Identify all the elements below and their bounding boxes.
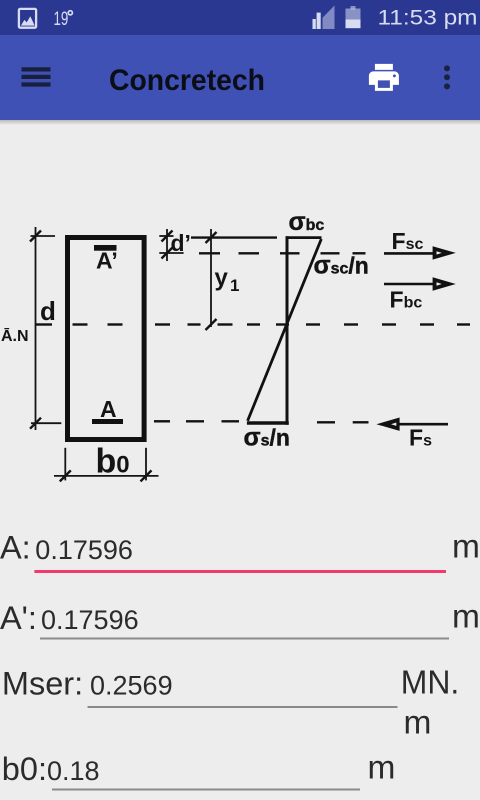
svg-text:Mser:: Mser: xyxy=(2,665,83,701)
rebar A' (top steel bar) xyxy=(94,245,117,251)
svg-text:A: A xyxy=(100,396,117,422)
svg-text:m: m xyxy=(404,705,432,742)
status icon: signal strength bars xyxy=(323,6,335,30)
app bar: overflow menu dots xyxy=(444,65,450,89)
beam cross-section rectangle xyxy=(68,238,145,440)
app bar: hamburger menu icon xyxy=(22,67,51,86)
svg-text:y: y xyxy=(215,265,229,292)
svg-text:1: 1 xyxy=(230,276,239,295)
dimension b0 (below beam) xyxy=(54,448,159,481)
svg-text:0.17596: 0.17596 xyxy=(35,535,133,565)
svg-text:0.18: 0.18 xyxy=(47,756,100,786)
status icon: screenshot/picture notification icon xyxy=(19,9,36,28)
row 1 focused pink underline xyxy=(34,570,446,573)
svg-text:m: m xyxy=(452,599,480,636)
svg-text:b0:: b0: xyxy=(2,751,47,787)
app bar background xyxy=(0,35,480,120)
row 3 underline xyxy=(88,706,398,708)
dimension d' (top) xyxy=(159,229,183,261)
sigma_s bottom edge xyxy=(247,421,289,424)
svg-text:Ā.N: Ā.N xyxy=(1,326,29,345)
force arrow Fbc xyxy=(384,283,434,286)
rebar A (bottom steel bar) xyxy=(92,419,123,424)
status icon: battery xyxy=(351,6,356,10)
svg-text:A:: A: xyxy=(0,530,31,566)
stress axis vertical line xyxy=(286,236,289,425)
dashed line at A' level xyxy=(199,252,366,254)
top fiber line between beam and stress diagram xyxy=(191,236,277,238)
svg-text:d’: d’ xyxy=(171,230,191,256)
svg-text:0.2569: 0.2569 xyxy=(90,671,173,701)
svg-text:m: m xyxy=(368,750,396,787)
svg-text:m: m xyxy=(452,529,480,566)
svg-text:A':: A': xyxy=(0,600,37,636)
svg-text:11:53 pm: 11:53 pm xyxy=(378,7,478,30)
svg-text:d: d xyxy=(40,296,56,326)
status bar background xyxy=(0,0,480,35)
stress diagonal xyxy=(248,239,322,421)
row 4 underline xyxy=(52,789,360,791)
dimension y1 xyxy=(210,229,212,327)
dimension d (left) xyxy=(31,227,62,430)
svg-text:Concretech: Concretech xyxy=(109,64,265,97)
svg-text:MN.: MN. xyxy=(401,665,460,702)
svg-text:19: 19 xyxy=(54,9,69,30)
svg-text:0.17596: 0.17596 xyxy=(41,605,139,635)
force arrow Fsc xyxy=(384,252,434,255)
svg-text:A’: A’ xyxy=(96,248,118,274)
app bar: print action icon xyxy=(369,64,399,91)
app bar drop shadow xyxy=(0,120,480,125)
dashed neutral axis line xyxy=(36,323,470,325)
row 2 underline xyxy=(40,638,449,640)
dashed line at A level xyxy=(154,421,369,422)
force arrow Fs xyxy=(398,423,448,426)
sigma_bc top edge xyxy=(286,236,322,239)
